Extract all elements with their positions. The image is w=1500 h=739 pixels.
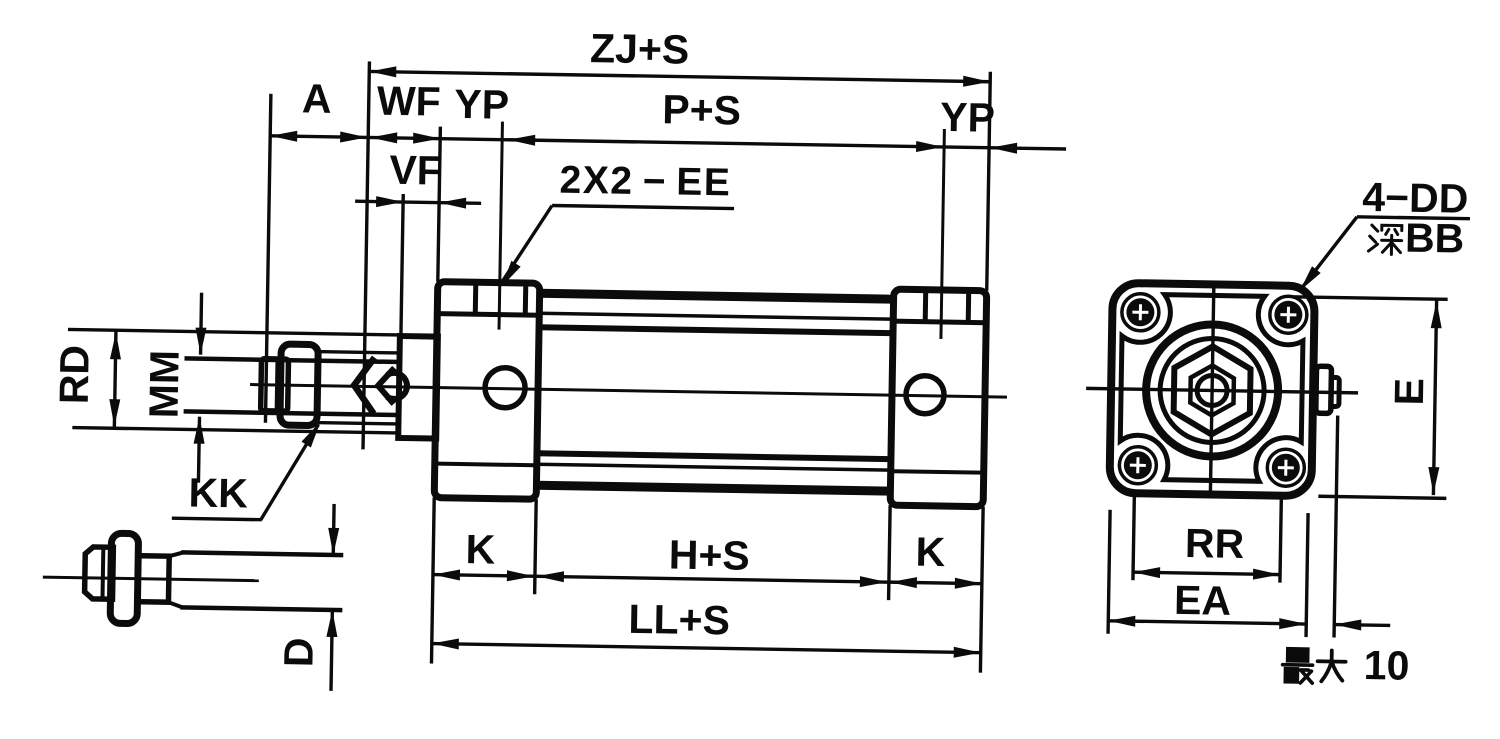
detail rod bottom — [180, 607, 342, 610]
screw TL slots — [1132, 304, 1148, 320]
rear strip divider 1 — [923, 292, 928, 322]
KK leader underline — [172, 518, 262, 519]
svg-text:K: K — [465, 526, 496, 572]
dim line LL+S — [432, 644, 981, 653]
ext line VF collar — [401, 194, 403, 336]
svg-text:E: E — [1386, 378, 1432, 406]
piston rod bottom edge — [184, 411, 399, 415]
centerline main — [250, 385, 1007, 398]
svg-text:ZJ+S: ZJ+S — [590, 25, 690, 73]
front head inner line — [438, 464, 535, 466]
4-DD leader underline — [1357, 217, 1470, 219]
side port boss tip — [1331, 377, 1339, 406]
tube bottom line — [536, 485, 890, 491]
screw BL slots — [1130, 457, 1146, 473]
tie rod bottom line — [537, 464, 891, 470]
svg-text:YP: YP — [454, 81, 509, 128]
rod thread bottom line KK — [315, 423, 397, 424]
piston rod top edge — [184, 358, 399, 362]
screw BR slots — [1278, 460, 1294, 476]
svg-text:K: K — [915, 529, 946, 575]
svg-text:KK: KK — [188, 470, 248, 517]
rod tip block — [261, 359, 289, 411]
EA ext left — [1108, 510, 1110, 634]
washer chevron inner — [378, 368, 395, 404]
detail nut block — [137, 556, 169, 603]
ext line A left — [265, 94, 270, 423]
ext line K rear inner — [889, 505, 891, 600]
tube inner bottom line — [537, 453, 891, 459]
rod gland collar — [398, 336, 438, 439]
screw BR head — [1272, 453, 1300, 481]
svg-text:BB: BB — [1405, 215, 1465, 262]
rear head inner line — [894, 471, 981, 472]
glyph da (big) — [1317, 650, 1346, 681]
dim RD arrow line — [114, 331, 116, 427]
glyph shen (deep) — [1368, 225, 1401, 255]
end view vertical centerline — [1210, 284, 1213, 494]
dim D upper arrow — [332, 504, 336, 555]
side port boss — [1316, 366, 1332, 413]
screw BR ring — [1267, 449, 1305, 487]
front port circle — [485, 367, 526, 408]
washer ball arc — [387, 373, 407, 399]
svg-text:MM: MM — [141, 350, 188, 419]
tie rod top line — [539, 313, 893, 319]
max10 ext line — [1334, 416, 1338, 638]
ext line head front below — [431, 498, 434, 664]
EE leader underline — [552, 205, 734, 208]
4-DD leader line — [1302, 216, 1357, 289]
dim MM lower arrow — [198, 417, 199, 483]
RD top extension line — [68, 329, 399, 334]
svg-text:RD: RD — [51, 345, 98, 405]
screw BL head — [1124, 451, 1152, 479]
E ext top — [1292, 297, 1448, 300]
rod tip inner line — [275, 359, 280, 411]
svg-text:RR: RR — [1185, 520, 1245, 567]
front head strip bottom — [437, 314, 539, 316]
detail taper bottom — [168, 602, 182, 607]
dim chain A WF YP P+S YP — [270, 136, 1066, 149]
end cap outer square — [1109, 283, 1314, 496]
dim line VF — [355, 201, 481, 203]
svg-text:A: A — [302, 75, 332, 121]
dim line E — [1433, 299, 1436, 495]
front strip divider 1 — [473, 284, 478, 314]
detail hex end — [84, 547, 113, 599]
detail centerline — [43, 577, 259, 581]
svg-text:P+S: P+S — [662, 86, 741, 133]
tube inner top line — [539, 327, 893, 333]
detail taper top — [169, 552, 183, 556]
glyph zui (most) — [1282, 649, 1313, 683]
screw TR slots — [1280, 307, 1296, 323]
screw TL ring — [1122, 293, 1160, 331]
port EE extension line — [499, 122, 502, 330]
svg-text:D: D — [275, 637, 321, 667]
piston hex large — [1173, 346, 1251, 435]
front head block — [434, 282, 540, 500]
bore inner circle — [1159, 338, 1265, 444]
RR ext left — [1133, 495, 1134, 580]
screw BL ring — [1119, 446, 1157, 484]
dim MM upper arrow — [201, 293, 202, 355]
rod thread top line KK — [317, 352, 399, 353]
KK leader line — [261, 424, 319, 521]
rod nut MM — [280, 344, 318, 426]
dim line EA — [1108, 621, 1306, 624]
RD bottom extension line — [72, 428, 397, 433]
end cap web frame — [1120, 294, 1304, 482]
ext line right end below — [980, 507, 983, 673]
detail rod top — [181, 552, 343, 555]
rod small circle — [1197, 375, 1227, 405]
EE leader line — [503, 205, 552, 282]
rear head strip bottom — [893, 321, 986, 323]
rear port circle — [906, 375, 945, 414]
detail hex inner line — [100, 547, 105, 599]
dim line ZJ+S — [369, 71, 990, 81]
dim chain K H+S K — [433, 575, 982, 584]
dim line RR — [1133, 572, 1280, 574]
screw TR head — [1274, 300, 1302, 328]
ext line right end above — [987, 72, 991, 291]
svg-text:WF: WF — [377, 78, 442, 125]
tube top line — [540, 293, 894, 299]
dim D lower arrow — [331, 610, 332, 691]
ext line rod face — [363, 61, 369, 449]
end view horizontal centerline — [1086, 388, 1358, 393]
rear port extension line — [941, 129, 944, 339]
piston hex small — [1190, 365, 1234, 416]
washer chevron outer — [354, 357, 375, 413]
svg-text:2X2 − EE: 2X2 − EE — [559, 159, 732, 205]
ext line head front above — [438, 127, 441, 282]
EA ext right — [1306, 513, 1308, 637]
RR ext right — [1280, 498, 1281, 583]
ext line K front inner — [535, 499, 537, 594]
svg-text:10: 10 — [1363, 642, 1409, 689]
svg-text:LL+S: LL+S — [628, 596, 730, 644]
rear head block — [890, 289, 987, 507]
screw TL head — [1126, 298, 1154, 326]
detail flange washer — [110, 533, 138, 623]
front strip divider 2 — [523, 285, 528, 315]
bore outer circle — [1145, 323, 1279, 457]
rear strip divider 2 — [966, 292, 971, 322]
screw TR ring — [1270, 296, 1308, 334]
svg-text:YP: YP — [940, 94, 995, 141]
E ext bottom — [1318, 496, 1446, 498]
svg-text:VF: VF — [389, 147, 442, 194]
max10 arrow line — [1334, 623, 1390, 627]
svg-text:H+S: H+S — [668, 531, 750, 578]
svg-text:EA: EA — [1174, 577, 1232, 624]
